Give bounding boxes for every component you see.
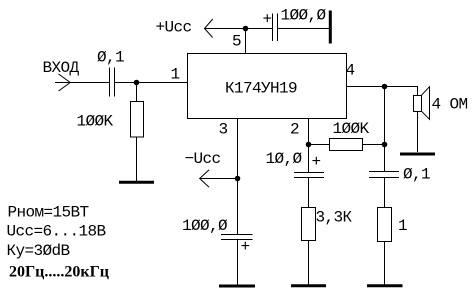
svg-text:1Ø,Ø: 1Ø,Ø: [266, 150, 303, 168]
svg-text:1: 1: [171, 65, 180, 83]
resistor R3 100K feedback: [330, 139, 363, 151]
svg-text:Ucc=6...18В: Ucc=6...18В: [7, 223, 106, 241]
wire R2 to ground: [308, 241, 310, 285]
wire junction to -Ucc arrow: [200, 178, 238, 180]
wire C3 to ground: [237, 240, 239, 285]
svg-text:Ø,1: Ø,1: [403, 166, 430, 184]
svg-text:2: 2: [290, 120, 299, 138]
svg-text:4 ОМ: 4 ОМ: [432, 96, 468, 114]
+Ucc arrow: [205, 19, 213, 38]
svg-text:ВХОД: ВХОД: [43, 59, 80, 77]
junction node -Ucc: [235, 176, 241, 182]
junction node OUT: [382, 84, 388, 90]
capacitor C1 0,1 input: [109, 68, 111, 97]
svg-text:1ØØ,Ø: 1ØØ,Ø: [182, 217, 228, 235]
svg-text:5: 5: [232, 33, 241, 51]
capacitor C2 100,0 supply: [272, 14, 274, 42]
svg-text:−Ucc: −Ucc: [185, 150, 221, 168]
svg-text:1: 1: [398, 217, 407, 235]
svg-text:Рном=15ВТ: Рном=15ВТ: [8, 204, 89, 222]
svg-text:1ØØK: 1ØØK: [333, 120, 370, 138]
wire +Ucc rail: [205, 28, 273, 30]
ground under C3: [219, 285, 255, 288]
svg-text:3,3К: 3,3К: [316, 209, 353, 227]
wire R3 to node OUT rail: [363, 144, 385, 146]
op-amp U1 К174УН19: [188, 54, 347, 119]
ground under R4: [367, 284, 403, 287]
junction node OUT2: [382, 142, 388, 148]
wire R1 to ground: [136, 137, 138, 181]
svg-text:Ø,1: Ø,1: [97, 49, 124, 67]
ground under R1: [119, 181, 154, 184]
wire C5 to R4: [384, 178, 386, 208]
wire node A down to R1: [136, 83, 138, 102]
svg-text:+: +: [312, 153, 321, 171]
input arrow: [59, 74, 71, 91]
svg-text:1ØØ,Ø: 1ØØ,Ø: [281, 7, 327, 25]
wire pin 3 down to C3: [237, 118, 239, 235]
ground under R2: [291, 284, 326, 287]
wire node FB to R3: [309, 144, 330, 146]
capacitor C5 0,1 zobel: [369, 171, 399, 173]
svg-text:1ØØK: 1ØØK: [77, 113, 114, 131]
svg-text:+: +: [241, 238, 250, 256]
svg-text:Ку=3ØdB: Ку=3ØdB: [7, 242, 70, 260]
svg-text:К174УН19: К174УН19: [225, 80, 297, 98]
svg-text:+Ucc: +Ucc: [156, 19, 192, 37]
wire R4 to ground: [384, 242, 386, 285]
wire input to C1: [55, 82, 109, 84]
-Ucc arrow: [200, 170, 209, 188]
junction node +Ucc: [243, 26, 249, 32]
wire C2 to ground bar: [278, 28, 329, 30]
resistor R2 3,3K feedback: [302, 208, 316, 241]
wire C1 to pin 1: [115, 82, 188, 84]
svg-text:20Гц.....20кГц: 20Гц.....20кГц: [9, 264, 109, 281]
wire pin 2 down to C4: [308, 118, 310, 173]
resistor R4 1 ohm zobel: [378, 208, 392, 242]
ground under speaker: [400, 153, 435, 156]
wire speaker to ground: [417, 112, 419, 153]
capacitor C4 10,0 feedback: [294, 172, 324, 174]
wire C4 to R2: [308, 178, 310, 208]
ground thick bar top right: [329, 11, 332, 44]
resistor R1 100K input: [131, 102, 144, 138]
junction node FB: [306, 142, 312, 148]
wire pin 4 to speaker: [346, 87, 418, 96]
junction node A: [134, 80, 140, 86]
wire output rail down: [384, 87, 386, 172]
svg-text:4: 4: [346, 62, 355, 80]
wire pin 5 up: [245, 29, 247, 54]
speaker LS1: [414, 96, 422, 112]
capacitor C3 100,0 bootstrap: [221, 234, 253, 236]
svg-text:+: +: [263, 11, 272, 29]
svg-text:3: 3: [219, 120, 228, 138]
